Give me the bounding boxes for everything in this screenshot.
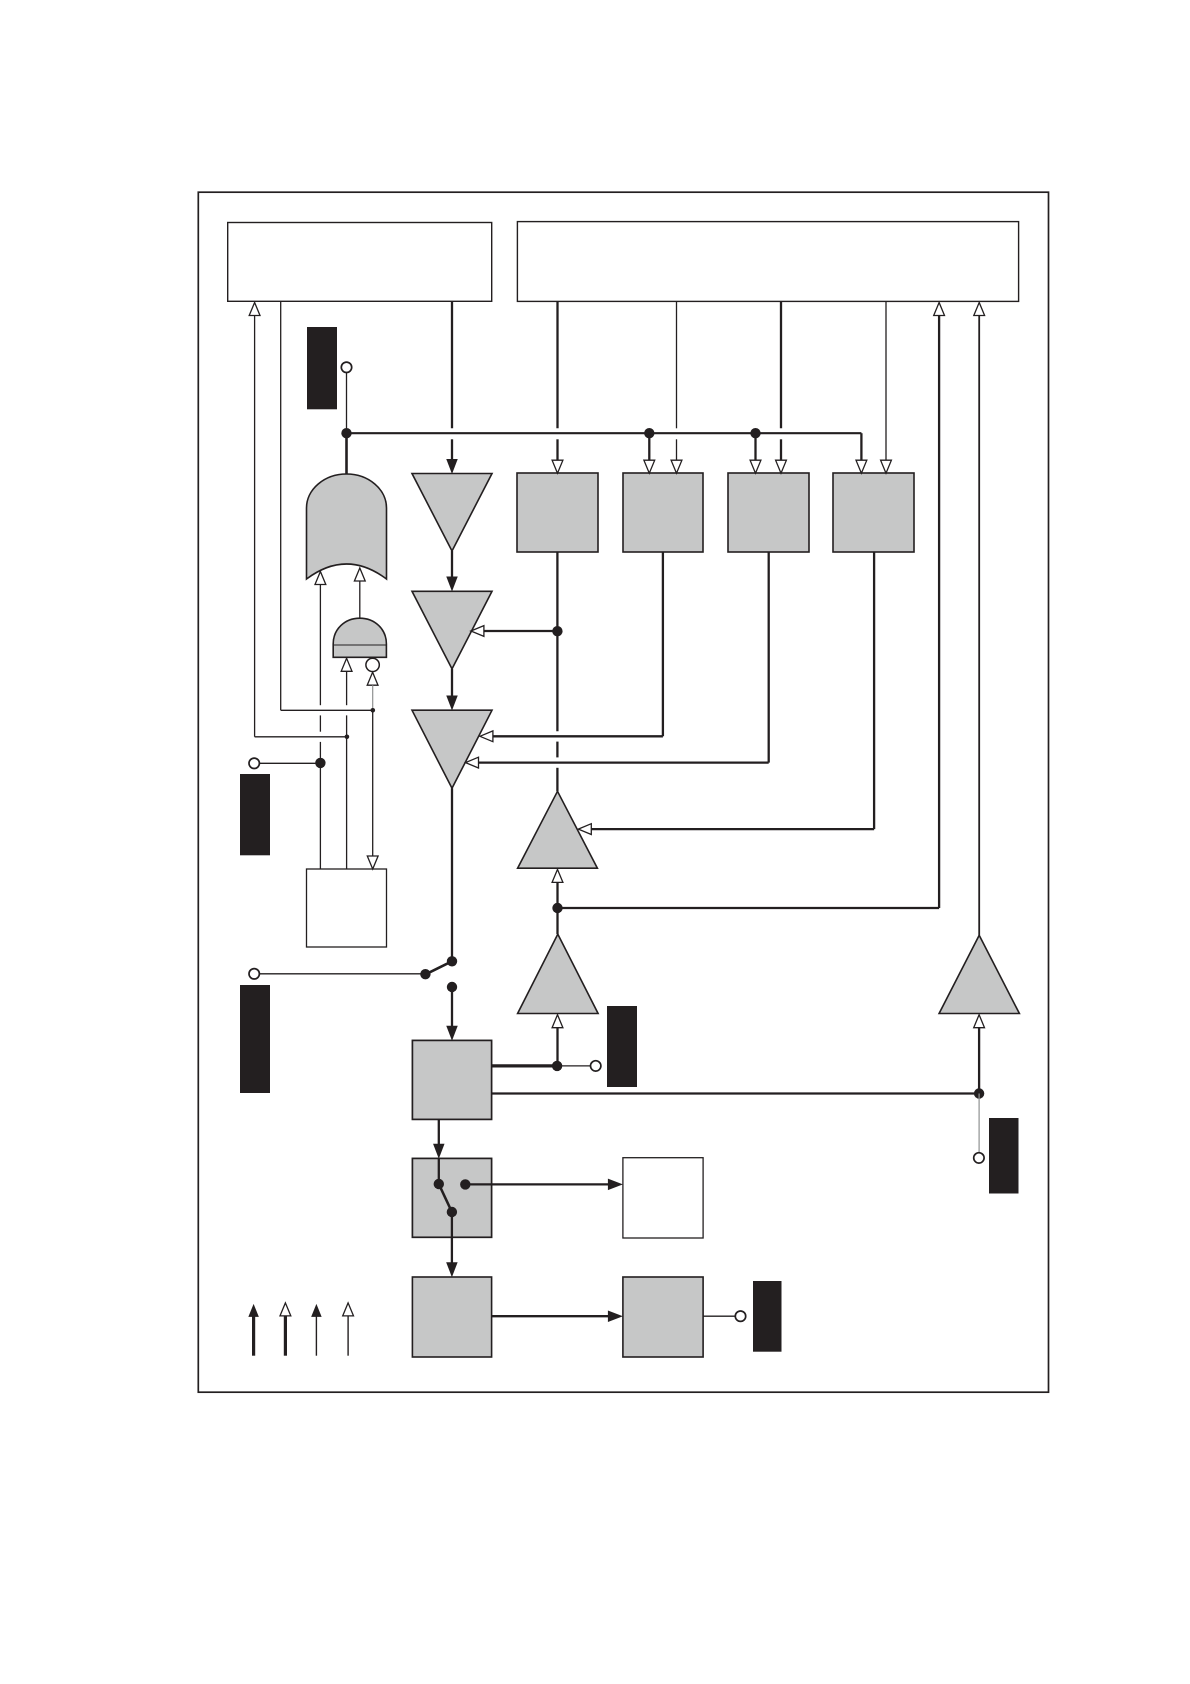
bus wire horizontal [347, 432, 862, 434]
multiplier M3 (up triangle) [939, 935, 1019, 1013]
block J bottom-right box [623, 1277, 703, 1357]
bubble on AND right input [366, 658, 379, 671]
block U2 clock generator box [517, 222, 1018, 302]
node S2 right [460, 1179, 470, 1189]
wire box2 to box A [556, 301, 558, 428]
node S1 pivot [420, 969, 430, 979]
label L3 (redacted) [240, 985, 270, 1093]
wire tap right and up into box2 [558, 907, 940, 909]
wire AND output up to OR right input [354, 568, 365, 581]
switch S1 arm [425, 961, 452, 974]
node bus junction 2 [750, 428, 760, 438]
and-gate G2 [333, 618, 386, 657]
wire tap to terminal circle [557, 1065, 590, 1067]
wire F long output to right column [492, 1092, 979, 1094]
legend arrow 2 (thick open) [284, 1316, 287, 1356]
wire circle to switch pivot [260, 973, 426, 975]
legend arrow 3 (thin filled) [315, 1317, 317, 1356]
wire box A down to multiplier M1 apex (with crossovers) [556, 552, 558, 731]
open arrow into bubble [367, 672, 378, 685]
wire AND left input vertical (with crossover) [341, 658, 352, 671]
open arrow down into control box E [367, 856, 378, 869]
wire box D down-left into M1 right input [873, 552, 875, 829]
wire T3 output to switch S1 [451, 788, 453, 961]
block E control box [307, 869, 387, 947]
wire circle to OR-left junction [260, 762, 321, 764]
wire OR gate output up to bus [345, 433, 348, 474]
label L4 (redacted) [607, 1006, 637, 1087]
node S1 top [447, 956, 457, 966]
wire bubble input vertical [372, 685, 374, 710]
block C divider box [728, 473, 809, 552]
block D divider box [833, 473, 914, 552]
terminal circle left [249, 758, 259, 768]
block B divider box [623, 473, 703, 552]
wire bus branch into box B [648, 433, 650, 460]
node right column junction [974, 1088, 984, 1098]
wire S2 right node to watchdog box H [465, 1183, 609, 1185]
wire S1 to prescaler box F [451, 987, 453, 1026]
wire junction up into M3 input [978, 1028, 980, 1094]
multiplier M2 (up triangle) [518, 934, 599, 1013]
terminal circle above OR gate [341, 362, 351, 372]
terminal circle right of box J [735, 1311, 745, 1321]
wire junction down to terminal (thin gray) [978, 1094, 980, 1153]
wire box I to box J [492, 1315, 609, 1317]
divider T3 (down triangle) [412, 710, 492, 788]
wire tap into T2 right input [484, 630, 557, 632]
border frame [198, 192, 1048, 1392]
divider T2 (down triangle) [412, 591, 492, 669]
wire T1 to T2 [451, 551, 453, 577]
wire box J to terminal [703, 1315, 735, 1317]
wire F bottom to switch box G [438, 1119, 440, 1144]
wire box2 to box D thin [885, 301, 887, 460]
block U1 oscillator box [228, 223, 492, 302]
node bus junction 1 [644, 428, 654, 438]
wire circle to bus junction [346, 373, 348, 430]
block H watchdog box (white) [623, 1158, 703, 1238]
block F prescaler box [412, 1040, 491, 1119]
node bubble-line junction [371, 708, 376, 713]
terminal circle right of F [591, 1061, 601, 1071]
node S1 bottom [447, 982, 457, 992]
block I bottom-left box [412, 1277, 491, 1357]
legend arrow 1 (thick filled) [252, 1317, 255, 1356]
wire S2 bottom node down to box I [451, 1212, 453, 1263]
wire into S2 top node [438, 1159, 440, 1184]
legend arrow 4 (thin open) [347, 1316, 349, 1356]
label L5 (redacted) [753, 1281, 782, 1352]
node bus start [341, 428, 351, 438]
label L1 (redacted) [307, 327, 337, 409]
wire M2 output up into M1 input [552, 869, 563, 882]
wire bus branch into box C [754, 433, 756, 460]
terminal circle right column [974, 1153, 984, 1163]
node F output tap [552, 1061, 562, 1071]
block G switch box [412, 1158, 491, 1237]
wire prescaler up into M2 input [552, 1015, 563, 1028]
wire box1 to divider T1 [451, 301, 453, 428]
wire M3 output up into box2 [978, 316, 980, 936]
multiplier M1 (up triangle) [518, 791, 598, 868]
divider T1 (down triangle) [412, 474, 492, 552]
node OR-left junction with circle wire [315, 758, 325, 768]
node M2 output tap [552, 903, 562, 913]
node AND-left junction [345, 735, 350, 740]
node S2 top [434, 1179, 444, 1189]
block A divider box [517, 473, 598, 552]
wire OR left input vertical (with crossovers) [315, 572, 326, 585]
wire box1 second line down [280, 301, 282, 710]
wire feedback left thin (arrow into box1) [249, 303, 260, 316]
node S2 bottom [447, 1207, 457, 1217]
wire box2 to box B thin [676, 301, 678, 428]
wire box B down-left into T3 input 1 [662, 552, 664, 736]
switch S2 arm [439, 1184, 452, 1212]
or-gate G1 [307, 474, 387, 579]
wire box C down-left into T3 input 2 [768, 552, 770, 763]
wire T2 to T3 [451, 669, 453, 696]
node tap to T2 [552, 626, 562, 636]
label L6 (redacted) [989, 1118, 1019, 1194]
label L2 (redacted) [240, 774, 270, 855]
wire F right output to M2 tap [492, 1064, 557, 1067]
wire bus end into box D [860, 433, 862, 460]
terminal circle left of switch S1 [249, 969, 259, 979]
wire box2 to box C [780, 301, 782, 428]
